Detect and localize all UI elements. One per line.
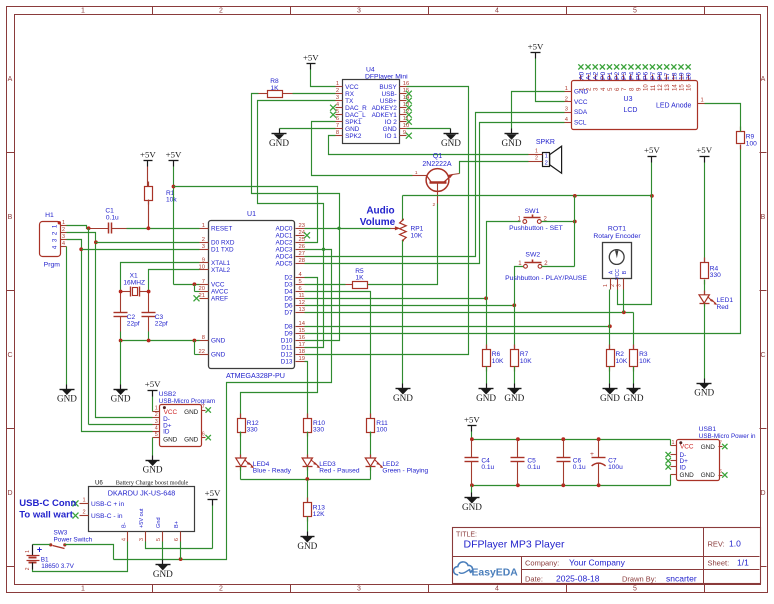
svg-text:3: 3 — [52, 238, 59, 242]
svg-text:IO 1: IO 1 — [385, 133, 398, 140]
svg-text:2: 2 — [62, 227, 65, 233]
svg-text:GND: GND — [111, 394, 131, 404]
wire D2 net to R12 — [241, 278, 318, 419]
U4 DFPlayer Mini — [330, 67, 412, 144]
connector USB2 USB-Micro Program — [153, 391, 216, 447]
wire BUSY to U1 D12 — [305, 87, 469, 355]
svg-text:SPK1: SPK1 — [345, 119, 362, 126]
svg-text:15: 15 — [299, 328, 305, 334]
LED LED2 Green - Playing — [365, 455, 428, 480]
wire D8 net to ROT1 A and R2 — [305, 290, 612, 350]
svg-text:TITLE:: TITLE: — [456, 532, 477, 539]
svg-text:2: 2 — [565, 96, 568, 102]
wire ADC2 net from +5V junction — [174, 187, 318, 243]
svg-text:Your Company: Your Company — [569, 558, 626, 568]
resistor R7 10K — [511, 345, 533, 384]
svg-text:Volume: Volume — [360, 217, 396, 228]
+5V symbol for U3 VCC — [528, 41, 565, 101]
svg-text:2: 2 — [535, 156, 538, 162]
svg-text:5: 5 — [156, 538, 162, 541]
svg-text:GND: GND — [345, 126, 360, 133]
svg-text:B+: B+ — [174, 521, 180, 528]
svg-text:1: 1 — [415, 170, 418, 176]
svg-text:22pf: 22pf — [127, 321, 140, 328]
resistor R6 10K — [483, 345, 505, 384]
svg-text:Pushbutton - SET: Pushbutton - SET — [509, 225, 563, 232]
svg-text:D12: D12 — [281, 352, 293, 359]
svg-text:1: 1 — [701, 98, 704, 104]
svg-text:ID: ID — [163, 429, 170, 436]
wire SW1 pin2 to +5V riser — [542, 196, 577, 267]
svg-text:16MHZ: 16MHZ — [123, 279, 145, 286]
wire D7 net to ROT1 B and R3 — [305, 290, 634, 350]
svg-text:ADKEY2: ADKEY2 — [372, 105, 398, 112]
svg-text:19: 19 — [299, 356, 305, 362]
svg-text:1: 1 — [545, 153, 548, 159]
svg-text:GND: GND — [694, 388, 714, 398]
wire ADC4 to U3 SDA — [305, 113, 565, 257]
svg-text:1: 1 — [672, 440, 675, 446]
svg-text:Sheet:: Sheet: — [708, 559, 730, 568]
svg-text:7: 7 — [202, 279, 205, 285]
svg-text:GND: GND — [502, 138, 522, 148]
svg-text:SW2: SW2 — [525, 251, 540, 258]
svg-text:5: 5 — [299, 279, 302, 285]
+5V symbol for VCC riser — [166, 149, 182, 186]
ground U4 pin10 — [444, 129, 459, 140]
svg-text:2: 2 — [545, 161, 548, 167]
+5V symbol cap rail — [464, 415, 480, 440]
svg-text:2: 2 — [25, 567, 31, 570]
svg-text:2: 2 — [432, 202, 435, 208]
wire rail to USB1 GND — [670, 475, 672, 486]
+5V symbol for LED1 chain — [696, 145, 712, 262]
svg-text:USB-C - in: USB-C - in — [91, 513, 123, 520]
svg-text:8: 8 — [202, 335, 205, 341]
svg-text:17: 17 — [664, 72, 671, 80]
svg-text:2: 2 — [202, 237, 205, 243]
svg-text:6: 6 — [299, 286, 302, 292]
svg-text:20: 20 — [686, 72, 693, 80]
ground RP1 — [396, 384, 411, 395]
transistor Q1 2N2222A — [413, 153, 460, 208]
wire D6 net to SW2 and R7 — [305, 267, 524, 350]
svg-text:A: A — [761, 76, 766, 83]
svg-text:2: 2 — [52, 231, 59, 235]
svg-text:4: 4 — [495, 586, 499, 593]
wire cap bottom rail — [470, 483, 671, 487]
wire D0 row — [96, 242, 200, 244]
svg-text:DAC_R: DAC_R — [345, 105, 367, 112]
svg-text:10: 10 — [643, 84, 650, 91]
svg-text:6: 6 — [202, 432, 205, 438]
wire U6 +5V out — [146, 542, 213, 549]
svg-text:15: 15 — [678, 84, 685, 91]
svg-text:GND: GND — [680, 472, 695, 479]
rotary encoder ROT1 — [593, 226, 641, 290]
svg-text:13: 13 — [299, 307, 305, 313]
+5V symbol for U4 VCC — [303, 52, 336, 86]
svg-text:6: 6 — [336, 116, 339, 122]
LED LED3 Red - Paused — [302, 455, 360, 480]
wire LED1 to ground — [704, 304, 706, 379]
svg-text:A: A — [608, 270, 614, 274]
EasyEDA logo — [454, 562, 519, 578]
svg-text:22: 22 — [199, 349, 205, 355]
svg-text:1: 1 — [603, 284, 609, 287]
svg-text:LCD: LCD — [623, 107, 637, 114]
svg-text:P0: P0 — [600, 71, 607, 80]
ground R2 — [603, 384, 618, 395]
svg-text:330: 330 — [710, 272, 721, 279]
wire ADC3 net battery sense — [114, 250, 332, 561]
svg-text:10k: 10k — [166, 197, 177, 204]
wire H1 pin2 to D0 and USB2 D- — [67, 233, 153, 418]
svg-text:GND: GND — [701, 472, 716, 479]
wire cap top rail — [470, 437, 671, 441]
svg-text:GND: GND — [153, 569, 173, 579]
svg-text:1: 1 — [52, 224, 59, 228]
svg-text:USB-: USB- — [382, 91, 397, 98]
svg-text:27: 27 — [299, 251, 305, 257]
svg-text:XTAL1: XTAL1 — [211, 260, 231, 267]
svg-text:Rotary Encoder: Rotary Encoder — [593, 233, 641, 240]
svg-text:3: 3 — [357, 586, 361, 593]
svg-text:AVCC: AVCC — [211, 289, 229, 296]
svg-text:Red: Red — [717, 304, 729, 311]
svg-text:+5V: +5V — [644, 145, 660, 155]
wire D9 net to R9 — [305, 145, 741, 334]
capacitor C1 — [89, 208, 127, 234]
svg-text:D11: D11 — [281, 345, 293, 352]
pushbutton SW1 - SET — [509, 208, 563, 232]
svg-text:4: 4 — [121, 538, 127, 541]
wire D13 net to R10 — [305, 362, 308, 419]
svg-text:GND: GND — [184, 436, 199, 443]
svg-text:H1: H1 — [45, 212, 54, 219]
ground U6 — [156, 560, 171, 570]
svg-text:ROT1: ROT1 — [608, 226, 626, 233]
wire ADC5 to U3 SCL — [305, 123, 565, 264]
svg-text:3: 3 — [357, 8, 361, 15]
svg-text:D4: D4 — [284, 289, 293, 296]
svg-text:10K: 10K — [639, 358, 651, 365]
svg-text:XTAL2: XTAL2 — [211, 267, 231, 274]
svg-text:USB-C Conn: USB-C Conn — [19, 498, 76, 509]
ground LED1 — [697, 379, 712, 389]
svg-text:10K: 10K — [411, 232, 423, 239]
svg-text:Q1: Q1 — [433, 153, 442, 160]
wire SW3 to battery rail — [33, 545, 114, 560]
svg-text:5: 5 — [155, 432, 158, 438]
battery B1 18650 3.7V — [25, 545, 74, 571]
wire crystal ground row to U1 GND pins — [119, 339, 200, 385]
svg-text:1: 1 — [81, 586, 85, 593]
wire R8 right to U4 RX — [293, 93, 336, 95]
ground U4 pin7 — [272, 129, 287, 140]
svg-text:P5: P5 — [636, 71, 643, 80]
svg-text:ID: ID — [680, 464, 687, 471]
svg-text:2025-08-18: 2025-08-18 — [556, 573, 600, 583]
svg-text:ADC5: ADC5 — [275, 261, 292, 268]
wire Q1 emitter to R5 row — [368, 204, 438, 285]
svg-text:6: 6 — [174, 538, 180, 541]
svg-text:REV:: REV: — [708, 540, 725, 549]
+5V symbol right rail — [644, 145, 660, 195]
svg-text:16: 16 — [299, 335, 305, 341]
wire R8 left to U1 D10 — [252, 94, 341, 341]
svg-text:100: 100 — [746, 140, 757, 147]
svg-text:LED Anode: LED Anode — [656, 103, 692, 110]
svg-text:0.1u: 0.1u — [106, 215, 119, 222]
svg-text:ADC1: ADC1 — [275, 233, 292, 240]
svg-text:Drawn By:: Drawn By: — [622, 574, 657, 583]
svg-text:16: 16 — [686, 84, 693, 91]
svg-text:TX: TX — [345, 98, 354, 105]
svg-text:DFPlayer Mini: DFPlayer Mini — [365, 73, 408, 80]
svg-text:1: 1 — [82, 498, 85, 504]
resistor R13 12K — [304, 480, 326, 532]
svg-text:1/1: 1/1 — [737, 558, 749, 568]
resistor R2 10K — [607, 345, 628, 384]
svg-text:GND: GND — [476, 393, 496, 403]
svg-text:USB-C + in: USB-C + in — [91, 501, 124, 508]
svg-text:DAC_L: DAC_L — [345, 112, 366, 119]
svg-text:D6: D6 — [284, 303, 293, 310]
svg-text:R7: R7 — [520, 351, 529, 358]
svg-text:SPK2: SPK2 — [345, 133, 362, 140]
svg-text:1K: 1K — [355, 275, 364, 282]
svg-text:A1: A1 — [585, 71, 592, 80]
svg-text:U6: U6 — [95, 480, 103, 487]
MCU U1 ATMEGA328P-PU — [194, 211, 311, 380]
svg-text:RESET: RESET — [211, 226, 232, 233]
svg-text:0.1u: 0.1u — [527, 464, 540, 471]
U3 LCD — [565, 64, 705, 129]
svg-text:4: 4 — [155, 425, 158, 431]
ground R13 — [301, 532, 315, 543]
svg-text:GND: GND — [462, 502, 482, 512]
svg-text:0.1u: 0.1u — [481, 464, 494, 471]
pushbutton SW2 - PLAY/PAUSE — [505, 251, 587, 282]
svg-text:Green - Playing: Green - Playing — [382, 468, 428, 475]
svg-text:20: 20 — [199, 286, 205, 292]
svg-text:2: 2 — [155, 412, 158, 418]
wire XTAL1 net — [119, 263, 200, 294]
svg-text:3: 3 — [155, 419, 158, 425]
svg-text:A: A — [8, 76, 13, 83]
svg-text:+5V: +5V — [464, 415, 480, 425]
svg-text:EasyEDA: EasyEDA — [472, 567, 519, 578]
svg-text:5: 5 — [633, 586, 637, 593]
svg-text:3: 3 — [565, 107, 568, 113]
svg-text:+5V: +5V — [205, 488, 221, 498]
crystal X1 16MHZ — [121, 273, 149, 297]
svg-text:2: 2 — [219, 8, 223, 15]
svg-text:VCC: VCC — [211, 282, 225, 289]
label USB-C Conn — [19, 498, 76, 521]
wire H1 pin3 to D1 and USB2 ID — [67, 240, 153, 432]
svg-text:D0 RXD: D0 RXD — [211, 240, 235, 247]
svg-text:12: 12 — [299, 300, 305, 306]
svg-text:D9: D9 — [284, 331, 293, 338]
svg-text:7: 7 — [719, 440, 722, 446]
svg-text:18: 18 — [299, 349, 305, 355]
svg-text:ADC0: ADC0 — [275, 226, 292, 233]
svg-text:ATMEGA328P-PU: ATMEGA328P-PU — [226, 371, 285, 380]
svg-text:18: 18 — [671, 72, 678, 80]
svg-text:10: 10 — [199, 264, 205, 270]
svg-text:19: 19 — [678, 72, 685, 80]
svg-text:7: 7 — [202, 404, 205, 410]
svg-text:Blue - Ready: Blue - Ready — [253, 468, 292, 475]
svg-text:SPKR: SPKR — [536, 139, 555, 146]
svg-text:8: 8 — [336, 130, 339, 136]
svg-text:11: 11 — [299, 293, 305, 299]
svg-text:Pushbutton - PLAY/PAUSE: Pushbutton - PLAY/PAUSE — [505, 275, 587, 282]
svg-text:10K: 10K — [616, 358, 628, 365]
wire LED cathode rail — [241, 477, 371, 481]
svg-text:D1 TXD: D1 TXD — [211, 247, 234, 254]
svg-text:23: 23 — [299, 223, 305, 229]
svg-text:Prgm: Prgm — [44, 262, 61, 269]
svg-text:1: 1 — [25, 550, 31, 553]
svg-text:330: 330 — [247, 427, 258, 434]
capacitor C3 22pf — [142, 292, 168, 341]
svg-text:1: 1 — [565, 86, 568, 92]
svg-text:Battery Charge boost module: Battery Charge boost module — [116, 480, 189, 487]
svg-text:+5V: +5V — [303, 52, 319, 62]
svg-text:6: 6 — [719, 469, 722, 475]
wire C1 junction down to USB2 D+ — [89, 229, 153, 425]
resistor R12 330 — [238, 414, 260, 459]
resistor R8 1K — [259, 78, 293, 98]
ground crystal — [114, 385, 128, 395]
wire D1 row — [82, 249, 200, 251]
svg-text:+: + — [590, 451, 594, 458]
svg-text:Gnd: Gnd — [156, 517, 162, 528]
connector H1 Prgm — [40, 212, 67, 269]
svg-text:GND: GND — [269, 138, 289, 148]
svg-text:DKARDU JK-US-648: DKARDU JK-US-648 — [108, 489, 176, 498]
svg-text:3: 3 — [202, 244, 205, 250]
svg-text:VCC: VCC — [164, 409, 178, 416]
svg-text:17: 17 — [299, 342, 305, 348]
svg-text:12: 12 — [657, 84, 664, 91]
wire Q1 collector to speaker pin2 — [460, 162, 529, 174]
svg-text:sncarter: sncarter — [666, 573, 697, 583]
wire B+ riser — [180, 542, 182, 560]
svg-text:ADKEY1: ADKEY1 — [372, 112, 398, 119]
svg-text:2: 2 — [336, 88, 339, 94]
svg-text:1K: 1K — [270, 85, 279, 92]
svg-text:11: 11 — [650, 84, 657, 91]
wire R9 top to U3 LED anode — [705, 104, 741, 132]
svg-text:GND: GND — [624, 393, 644, 403]
wire D5 net to SW1 and R6 — [305, 222, 521, 350]
svg-text:VCC: VCC — [615, 269, 621, 280]
ground H1 — [60, 385, 75, 395]
ground U3 — [505, 129, 519, 140]
svg-text:18650 3.7V: 18650 3.7V — [41, 563, 74, 570]
svg-text:GND: GND — [211, 338, 226, 345]
potentiometer RP1 10K — [305, 206, 424, 242]
wire U4 pin10 to ground — [407, 128, 451, 130]
wire SW2 pin2 riser — [542, 266, 575, 268]
svg-text:R3: R3 — [639, 351, 648, 358]
wire RP1 bottom to ground — [402, 241, 404, 384]
svg-text:P1: P1 — [607, 71, 614, 80]
svg-text:+5V: +5V — [145, 379, 161, 389]
svg-text:BUSY: BUSY — [379, 84, 397, 91]
svg-text:1: 1 — [578, 87, 585, 91]
resistor R9 100 — [737, 127, 758, 150]
svg-text:D7: D7 — [284, 310, 293, 317]
svg-text:1: 1 — [155, 405, 158, 411]
svg-text:U3: U3 — [624, 96, 633, 103]
svg-text:2: 2 — [219, 586, 223, 593]
wire U6 Gnd pin — [162, 542, 164, 560]
wire XTAL2 net — [147, 270, 200, 294]
svg-text:10K: 10K — [520, 358, 532, 365]
svg-text:330: 330 — [313, 427, 324, 434]
svg-text:A2: A2 — [593, 71, 600, 80]
LED LED1 Red — [699, 291, 733, 311]
svg-text:GND: GND — [600, 393, 620, 403]
svg-text:D8: D8 — [284, 324, 293, 331]
svg-text:P3: P3 — [621, 71, 628, 80]
svg-text:C: C — [760, 352, 765, 359]
svg-text:R2: R2 — [616, 351, 625, 358]
svg-text:2N2222A: 2N2222A — [422, 161, 452, 168]
svg-text:SW1: SW1 — [525, 208, 540, 215]
svg-text:B: B — [8, 214, 13, 221]
svg-text:1: 1 — [202, 223, 205, 229]
svg-text:14: 14 — [671, 84, 678, 91]
svg-text:C1: C1 — [105, 208, 114, 215]
wire U3 GND to ground — [512, 92, 565, 129]
svg-text:USB+: USB+ — [380, 98, 397, 105]
ground USB2 — [146, 456, 160, 466]
svg-text:Date:: Date: — [525, 574, 543, 583]
svg-text:USB2: USB2 — [159, 391, 177, 398]
svg-text:B: B — [622, 270, 628, 274]
resistor R11 100 — [367, 414, 389, 459]
svg-text:VCC: VCC — [345, 84, 359, 91]
svg-text:Company:: Company: — [525, 559, 559, 568]
speaker SPKR — [529, 139, 562, 173]
wire H1 pin1 to C1 — [67, 226, 91, 231]
svg-text:B: B — [761, 214, 766, 221]
svg-text:P7: P7 — [650, 71, 657, 80]
svg-text:7: 7 — [336, 123, 339, 129]
svg-text:VCC: VCC — [574, 99, 588, 106]
capacitor C6 0.1u — [557, 440, 586, 486]
wire SPK1 to Q1 base — [312, 122, 413, 176]
svg-text:1: 1 — [81, 8, 85, 15]
svg-text:GND: GND — [297, 541, 317, 551]
svg-text:26: 26 — [299, 244, 305, 250]
svg-text:9: 9 — [202, 257, 205, 263]
svg-text:D: D — [760, 490, 765, 497]
connector USB1 USB-Micro Power in — [666, 426, 756, 481]
wire RESET net — [127, 226, 200, 230]
svg-text:VCC: VCC — [680, 444, 694, 451]
wire RP1 top to +5V rail — [403, 194, 654, 220]
svg-text:GND: GND — [701, 444, 716, 451]
svg-text:GND: GND — [211, 352, 226, 359]
svg-text:4: 4 — [495, 8, 499, 15]
